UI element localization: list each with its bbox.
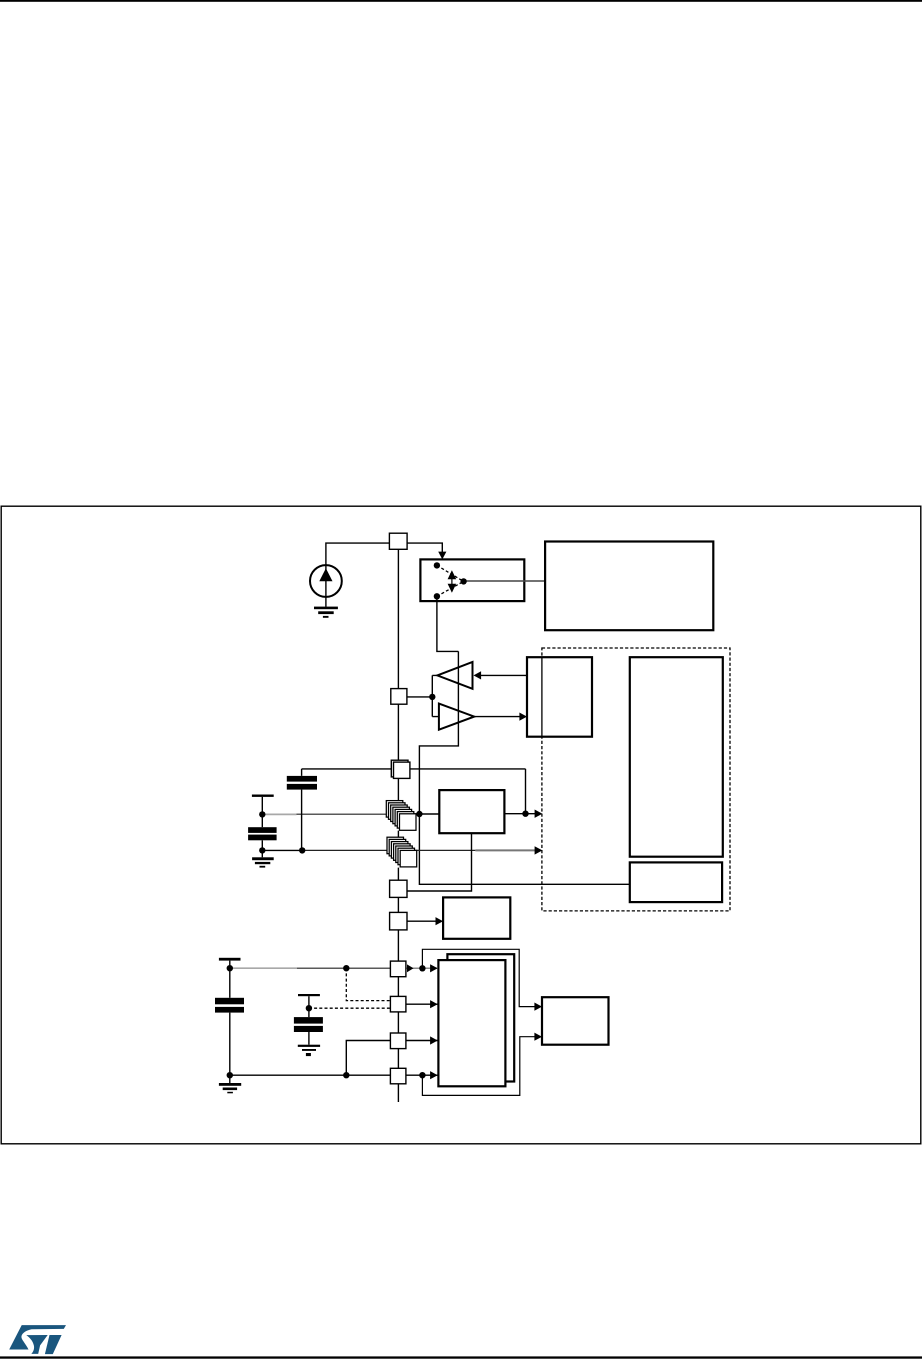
wire: feedback line crossing buffers	[419, 651, 629, 884]
wire: pin PB to block B5 with arrow	[407, 920, 438, 922]
regulator front box	[438, 960, 505, 1086]
capacitor C3	[294, 1017, 323, 1045]
capacitor C1	[287, 776, 317, 851]
capacitor C4	[215, 998, 244, 1083]
ground (left of oscillator)	[252, 857, 274, 867]
block box1 (straddling dashed boundary)	[527, 657, 592, 737]
wire: switch common down-jog to feedback line	[437, 596, 459, 651]
figure frame	[1, 506, 921, 1144]
wire: loop pin PF around regulators	[422, 1037, 536, 1096]
bottom rule	[0, 1356, 922, 1358]
pin P1	[389, 533, 407, 549]
wire: buffer U3 to block1 with arrow	[474, 716, 521, 718]
wire: OSC_IN line (gray)	[262, 813, 296, 815]
ground (bottom left)	[219, 1083, 241, 1093]
supply tap T1	[252, 795, 274, 828]
wire: block1 to buffer U2 with arrow	[480, 674, 528, 676]
pin PD	[390, 996, 406, 1012]
pin PB	[390, 912, 407, 930]
node junction dot	[429, 694, 435, 700]
wire: dashed link from T2 to pin PD	[309, 1007, 391, 1009]
oscillator box B4	[439, 790, 504, 833]
wire: VSS line to pin PF	[230, 1074, 391, 1076]
wire: pin PE row into front box	[406, 1040, 438, 1042]
ST logo	[9, 1325, 66, 1354]
pin PF	[390, 1068, 406, 1084]
junction dots on osc lines	[259, 811, 265, 817]
buffer U2 (input, pointing left)	[437, 662, 472, 689]
pin P3 (double)	[391, 760, 408, 777]
wire: OSC_OUT line lower (gray with arrow)	[262, 849, 302, 851]
wire: osc box bottom to pin PA	[407, 833, 472, 891]
block box3	[630, 862, 722, 902]
wire: switch output to block B1 (gray)	[464, 580, 545, 582]
switch box U1	[420, 559, 524, 601]
wire: pin PD row into front box	[406, 1003, 438, 1005]
pin PE	[390, 1033, 406, 1049]
supply tap T3	[219, 958, 241, 998]
wire: VDD line to pin PC (gray)	[230, 967, 297, 969]
pin PA	[390, 880, 407, 897]
switch contacts and arm	[434, 562, 467, 599]
pin PC	[390, 961, 406, 977]
wire: main bus vertical	[397, 549, 399, 1102]
wire: pin PE left link down to VSS line	[346, 1041, 390, 1076]
wire: dashed link from VDD node to pin PD	[346, 968, 390, 1000]
wire: pin PC row into front box	[406, 967, 438, 969]
dashed peripheral boundary box	[542, 648, 730, 911]
supply tap T2	[298, 994, 320, 1017]
pin stack S1	[386, 801, 416, 831]
ground (below current source)	[314, 597, 338, 618]
pin stack S2	[387, 837, 417, 867]
wire: current source to pin P1	[326, 543, 390, 565]
wire: loop pin PC around regulators	[422, 949, 536, 1006]
box1 divider	[541, 657, 543, 737]
buffer U3 (output, pointing right)	[439, 704, 474, 730]
wire: top line over oscillator	[302, 769, 526, 814]
wire: pin P1 to switch box	[407, 543, 442, 553]
junction dots bottom-left	[227, 965, 233, 971]
arrows into output box	[534, 1003, 542, 1011]
top rule	[0, 0, 922, 2]
capacitor C2	[248, 827, 277, 857]
block box2 (tall)	[630, 657, 723, 857]
block B5	[443, 897, 510, 938]
wire: node stub from pin P2 to buffers	[407, 675, 439, 716]
pin P2	[391, 689, 407, 705]
ground (middle bottom)	[298, 1045, 320, 1056]
regulator mid box	[447, 954, 514, 1081]
wire: osc box output	[504, 813, 536, 815]
wire: OSC_IN black segment to osc box	[412, 813, 439, 815]
wire: pin PF row into front box	[406, 1074, 438, 1076]
current source I1	[310, 565, 342, 597]
output box	[542, 997, 609, 1044]
block B1	[545, 542, 713, 631]
